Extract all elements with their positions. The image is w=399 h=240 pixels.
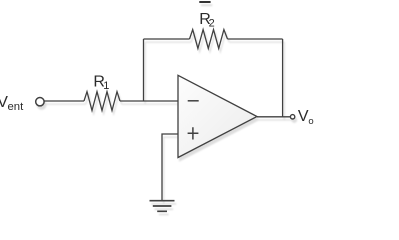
svg-text:2: 2	[209, 17, 215, 29]
wire feedback top-right	[228, 38, 283, 40]
wire feedback down	[282, 39, 284, 117]
svg-text:V: V	[298, 108, 309, 125]
wire output	[257, 116, 290, 118]
resistor R2	[190, 30, 228, 49]
op-amp U1	[178, 75, 257, 157]
ground	[150, 201, 175, 212]
label R2	[199, 11, 214, 29]
label Vo	[298, 108, 314, 127]
terminal Vo	[290, 115, 294, 119]
wire noninverting input	[162, 134, 178, 200]
label Vent	[0, 94, 24, 113]
wire junction to feedback	[143, 39, 145, 101]
terminal Vent	[36, 98, 44, 106]
svg-text:1: 1	[103, 80, 109, 92]
resistor R1	[84, 92, 120, 111]
plus input symbol	[188, 127, 199, 139]
svg-text:ent: ent	[8, 101, 25, 113]
svg-text:o: o	[308, 116, 313, 127]
label R1	[93, 74, 109, 93]
wire feedback top-left	[144, 38, 190, 40]
overline artifact above R2	[199, 1, 210, 3]
wire R1 to inverting input	[120, 100, 178, 102]
wire input	[44, 100, 84, 102]
minus input symbol	[188, 100, 199, 102]
